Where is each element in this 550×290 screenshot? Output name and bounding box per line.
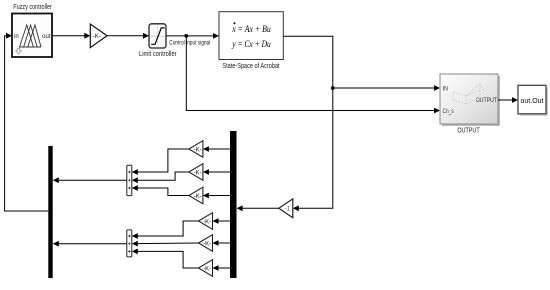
gain t4 (199, 213, 213, 230)
wire gain K1 to limit controller (107, 35, 145, 37)
wire feedback into fuzzy in (5, 36, 49, 211)
svg-text:x = Ax + Bu: x = Ax + Bu (231, 25, 271, 35)
svg-text:y = Cx + Du: y = Cx + Du (231, 40, 270, 50)
wire demux to gain t3 (207, 195, 230, 197)
sum1 (127, 165, 132, 195)
demux right bar (230, 131, 237, 278)
svg-text:in: in (14, 34, 19, 40)
wire sum1 to mux (57, 179, 127, 181)
gain t3 (189, 187, 203, 204)
svg-text:-K-: -K- (93, 34, 101, 40)
subsystem OUTPUT (440, 74, 500, 126)
junction control signal (184, 34, 188, 38)
mux left bar (48, 146, 52, 278)
wire t1 to sum1 (136, 149, 189, 172)
wire sum2 to mux (57, 243, 127, 245)
wire -1 gain to demux (241, 207, 279, 209)
gain K1 (90, 24, 107, 48)
svg-text:Cn_s: Cn_s (443, 109, 454, 115)
svg-text:-K-: -K- (194, 194, 202, 200)
svg-text:-K-: -K- (203, 266, 211, 272)
svg-text:-K-: -K- (203, 241, 211, 247)
saturation Limit controller (149, 24, 166, 48)
svg-text:OUTPUT: OUTPUT (457, 128, 480, 135)
gain t1 (189, 141, 203, 158)
sum2 (127, 230, 132, 257)
svg-text:State-Space of Acrobat: State-Space of Acrobat (222, 63, 279, 70)
wire t2 to sum1 (136, 172, 189, 180)
svg-text:-K-: -K- (203, 219, 211, 225)
junction to OUTPUT IN (331, 86, 335, 90)
wire OUTPUT to out.Out (498, 99, 514, 101)
wire t3 to sum1 (136, 188, 189, 196)
wire t6 to sum2 (136, 251, 199, 268)
wire junction to OUTPUT IN (333, 87, 436, 89)
svg-text:Control input signal: Control input signal (169, 40, 210, 46)
wire t4 to sum2 (136, 221, 199, 236)
svg-text:-1: -1 (285, 207, 291, 213)
state-space block (219, 12, 283, 60)
svg-text:-K-: -K- (194, 147, 202, 153)
gain t5 (199, 235, 213, 252)
wire demux to gain t1 (207, 148, 230, 150)
svg-text:-K-: -K- (194, 170, 202, 176)
faint plot sketch (453, 84, 484, 104)
wire control signal to Cn_s (186, 36, 435, 111)
wire limit controller to state-space (166, 35, 215, 37)
wire demux to gain t5 (217, 242, 231, 244)
logging badge (16, 48, 22, 54)
wire demux to gain t6 (217, 267, 231, 269)
wire t5 to sum2 (136, 242, 199, 245)
svg-text:OUTPUT: OUTPUT (476, 98, 497, 104)
svg-text:Limit controller: Limit controller (139, 51, 177, 58)
wire state-space out, down to -1 gain (283, 36, 333, 208)
svg-text:Fuzzy controller: Fuzzy controller (13, 2, 52, 11)
gain t2 (189, 164, 203, 181)
gain -1 (279, 199, 293, 218)
membership functions icon (19, 25, 41, 47)
subsystem Fuzzy controller (12, 14, 52, 58)
gain t6 (199, 260, 213, 277)
svg-text:out.Out: out.Out (521, 96, 544, 105)
wire demux to gain t4 (217, 220, 231, 222)
svg-text:out: out (42, 34, 51, 40)
wire demux to gain t2 (207, 171, 230, 173)
wire fuzzy out to gain K1 (52, 35, 86, 37)
outport out.Out (518, 85, 548, 116)
svg-text:IN: IN (443, 86, 449, 92)
